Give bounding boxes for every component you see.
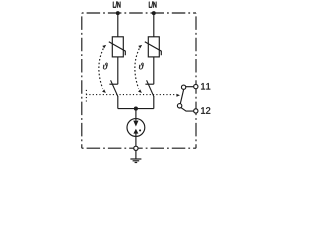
junction dot terminal L/N 1 xyxy=(116,11,120,15)
remote contact fixed contact circle xyxy=(181,85,185,89)
label L/N terminal 2 xyxy=(149,1,156,7)
enclosure dash-dot border bottom xyxy=(82,147,196,149)
terminal 11 circle on enclosure border xyxy=(194,84,198,88)
enclosure dash-dot border left xyxy=(81,13,83,148)
remote contact pivot circle xyxy=(177,104,181,108)
thermal linkage arc 1 lower arrowhead xyxy=(102,89,106,93)
wire disconnector 2 to bus xyxy=(153,96,155,109)
wire MOV1 to disconnector 1 xyxy=(117,57,119,84)
mechanical linkage arrowhead at remote contact xyxy=(176,94,180,97)
gas discharge tube F1 gas-filled dot xyxy=(139,129,141,131)
enclosure dash-dot border right xyxy=(195,13,197,148)
mechanical linkage vertical dotted stub at left end xyxy=(85,90,87,102)
PE terminal circle on enclosure border xyxy=(134,146,138,150)
thermal disconnector 2 blade xyxy=(147,80,154,96)
wire PE terminal to earth xyxy=(135,150,137,159)
earth symbol xyxy=(130,159,141,163)
label terminal 12 xyxy=(201,107,210,114)
gas discharge tube F1 upper arrow electrode xyxy=(133,121,138,127)
remote signalling contact blade xyxy=(180,90,183,104)
wire bus junction down to spark gap F1 xyxy=(135,109,137,121)
theta symbol 1 xyxy=(103,63,108,70)
thermal linkage arc 2 lower arrowhead xyxy=(138,89,142,93)
mechanical linkage dotted line to remote contact xyxy=(86,94,176,96)
wire disconnector 1 to bus xyxy=(117,96,119,109)
wire L/N 1 down from terminal to varistor MOV1 xyxy=(117,13,119,37)
label L/N terminal 1 xyxy=(113,1,120,7)
wire MOV2 to disconnector 2 xyxy=(153,57,155,84)
varistor MOV2 diagonal stroke with hook xyxy=(145,42,162,56)
thermal linkage arc 2 (dashed) xyxy=(135,49,139,89)
remote signalling contact: wire fixed contact to terminal 11 xyxy=(186,86,194,88)
thermal disconnector 1 blade xyxy=(111,80,118,96)
varistor MOV1 diagonal stroke with hook xyxy=(109,42,126,56)
varistor MOV1 body xyxy=(112,37,123,57)
terminal 12 circle on enclosure border xyxy=(194,109,198,113)
gas discharge tube F1 lower electrode wire to PE terminal xyxy=(135,133,137,146)
wire L/N 2 down from terminal to varistor MOV2 xyxy=(153,13,155,37)
thermal disconnector 2 fixed contact tick xyxy=(145,83,153,85)
gas discharge tube F1 circle xyxy=(127,119,145,137)
enclosure dash-dot border top xyxy=(82,12,196,14)
junction dot terminal L/N 2 xyxy=(152,11,156,15)
remote signalling contact: wire pivot to terminal 12 xyxy=(181,108,194,111)
thermal linkage arc 1 upper arrowhead xyxy=(102,45,106,49)
junction dot at bus node xyxy=(134,107,138,111)
thermal disconnector 1 fixed contact tick xyxy=(109,83,117,85)
gas discharge tube F1 lower arrow electrode xyxy=(133,129,138,134)
label terminal 11 xyxy=(201,83,210,89)
bus wire joining both branches xyxy=(118,108,154,110)
thermal linkage arc 2 upper arrowhead xyxy=(138,45,142,49)
thermal linkage arc 1 (dashed) xyxy=(99,49,103,89)
varistor MOV2 body xyxy=(148,37,159,57)
theta symbol 2 xyxy=(139,63,144,70)
